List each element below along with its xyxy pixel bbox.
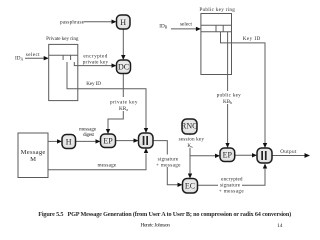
svg-text:+ message: + message <box>156 162 181 168</box>
svg-text:Message: Message <box>21 149 46 156</box>
wire H to EP1 message digest <box>76 140 97 142</box>
public key ring box <box>201 14 232 75</box>
private key ring row line <box>49 54 78 56</box>
concat 2 box <box>257 148 272 163</box>
svg-text:Key ID: Key ID <box>86 81 101 87</box>
public key ring divider 2 <box>222 25 224 32</box>
EP1 box <box>101 134 116 148</box>
svg-text:public key: public key <box>217 92 242 98</box>
wire message M to H <box>48 140 58 142</box>
svg-text:select: select <box>180 22 193 28</box>
wire output from concat 2 <box>272 155 305 157</box>
private key ring box <box>49 44 78 100</box>
svg-text:private key: private key <box>110 99 138 105</box>
wire key ID from private ring to concat 1 <box>67 62 146 129</box>
label patch signature on EC output <box>218 182 242 188</box>
wire EP1 to concat 1 <box>116 140 135 142</box>
public key ring row line top <box>201 24 232 26</box>
svg-text:+ message: + message <box>219 188 245 194</box>
wire key ID from public ring to concat 2 <box>221 32 266 143</box>
wire encrypted private key to DC <box>74 62 112 66</box>
message M box <box>18 133 48 178</box>
wire passphrase to H <box>84 21 112 23</box>
svg-text:Private key ring: Private key ring <box>46 36 79 42</box>
EP2 box <box>220 148 235 162</box>
EC box <box>183 179 198 194</box>
svg-text:RNG: RNG <box>181 122 198 131</box>
svg-text:H: H <box>66 138 72 147</box>
hash box H message <box>62 135 76 149</box>
label patch signature + message <box>156 155 182 168</box>
svg-text:message: message <box>97 162 116 168</box>
private key ring cell tick 1 <box>62 55 64 60</box>
svg-text:select: select <box>26 52 40 58</box>
hash box H top <box>117 15 131 29</box>
svg-text:Figure 5.5 PGP Message Gener: Figure 5.5 PGP Message Generation (from … <box>38 211 291 218</box>
wire session key to EP2 <box>190 155 216 157</box>
public key ring divider 1 <box>215 25 217 32</box>
svg-text:EC: EC <box>185 182 195 191</box>
wire public key KBb to EP2 <box>227 32 229 143</box>
wire IDB select into public ring <box>171 28 196 30</box>
wire RNG session key down to EC <box>189 134 191 174</box>
svg-text:Key ID: Key ID <box>243 36 261 42</box>
wire EC output to concat 2 bottom <box>198 169 266 186</box>
wire private key KRa from DC to EP1 <box>108 74 123 130</box>
label patch public key KBb <box>216 91 242 104</box>
svg-text:Henric Johnson: Henric Johnson <box>141 222 171 228</box>
svg-text:Public key ring: Public key ring <box>199 7 235 13</box>
svg-text:passphrase: passphrase <box>60 19 85 25</box>
svg-text:private key: private key <box>83 60 109 66</box>
public key ring row line bottom <box>201 31 232 33</box>
svg-text:14: 14 <box>277 223 283 229</box>
wire concat 1 output down to EC <box>153 141 178 185</box>
wire EP2 to concat 2 <box>235 154 253 156</box>
svg-text:DC: DC <box>118 63 129 72</box>
svg-text:EP: EP <box>103 137 113 146</box>
wire message line from M to concat 1 bottom <box>48 154 146 170</box>
label patch private key KRa <box>109 97 139 111</box>
DC box <box>117 60 131 74</box>
svg-text:EP: EP <box>223 151 233 160</box>
svg-text:digest: digest <box>83 132 94 138</box>
label patch session key Ks <box>178 135 206 148</box>
svg-text:H: H <box>120 18 126 27</box>
private key ring cell tick 2 <box>70 55 72 60</box>
svg-text:Output: Output <box>280 149 297 155</box>
concat 1 box <box>139 133 154 148</box>
wire IDA select into private ring <box>25 57 44 59</box>
RNG box <box>182 119 197 134</box>
svg-text:encrypted: encrypted <box>83 53 107 59</box>
svg-text:session key: session key <box>179 136 205 142</box>
svg-text:M: M <box>30 156 36 163</box>
wire H to DC <box>122 28 124 56</box>
